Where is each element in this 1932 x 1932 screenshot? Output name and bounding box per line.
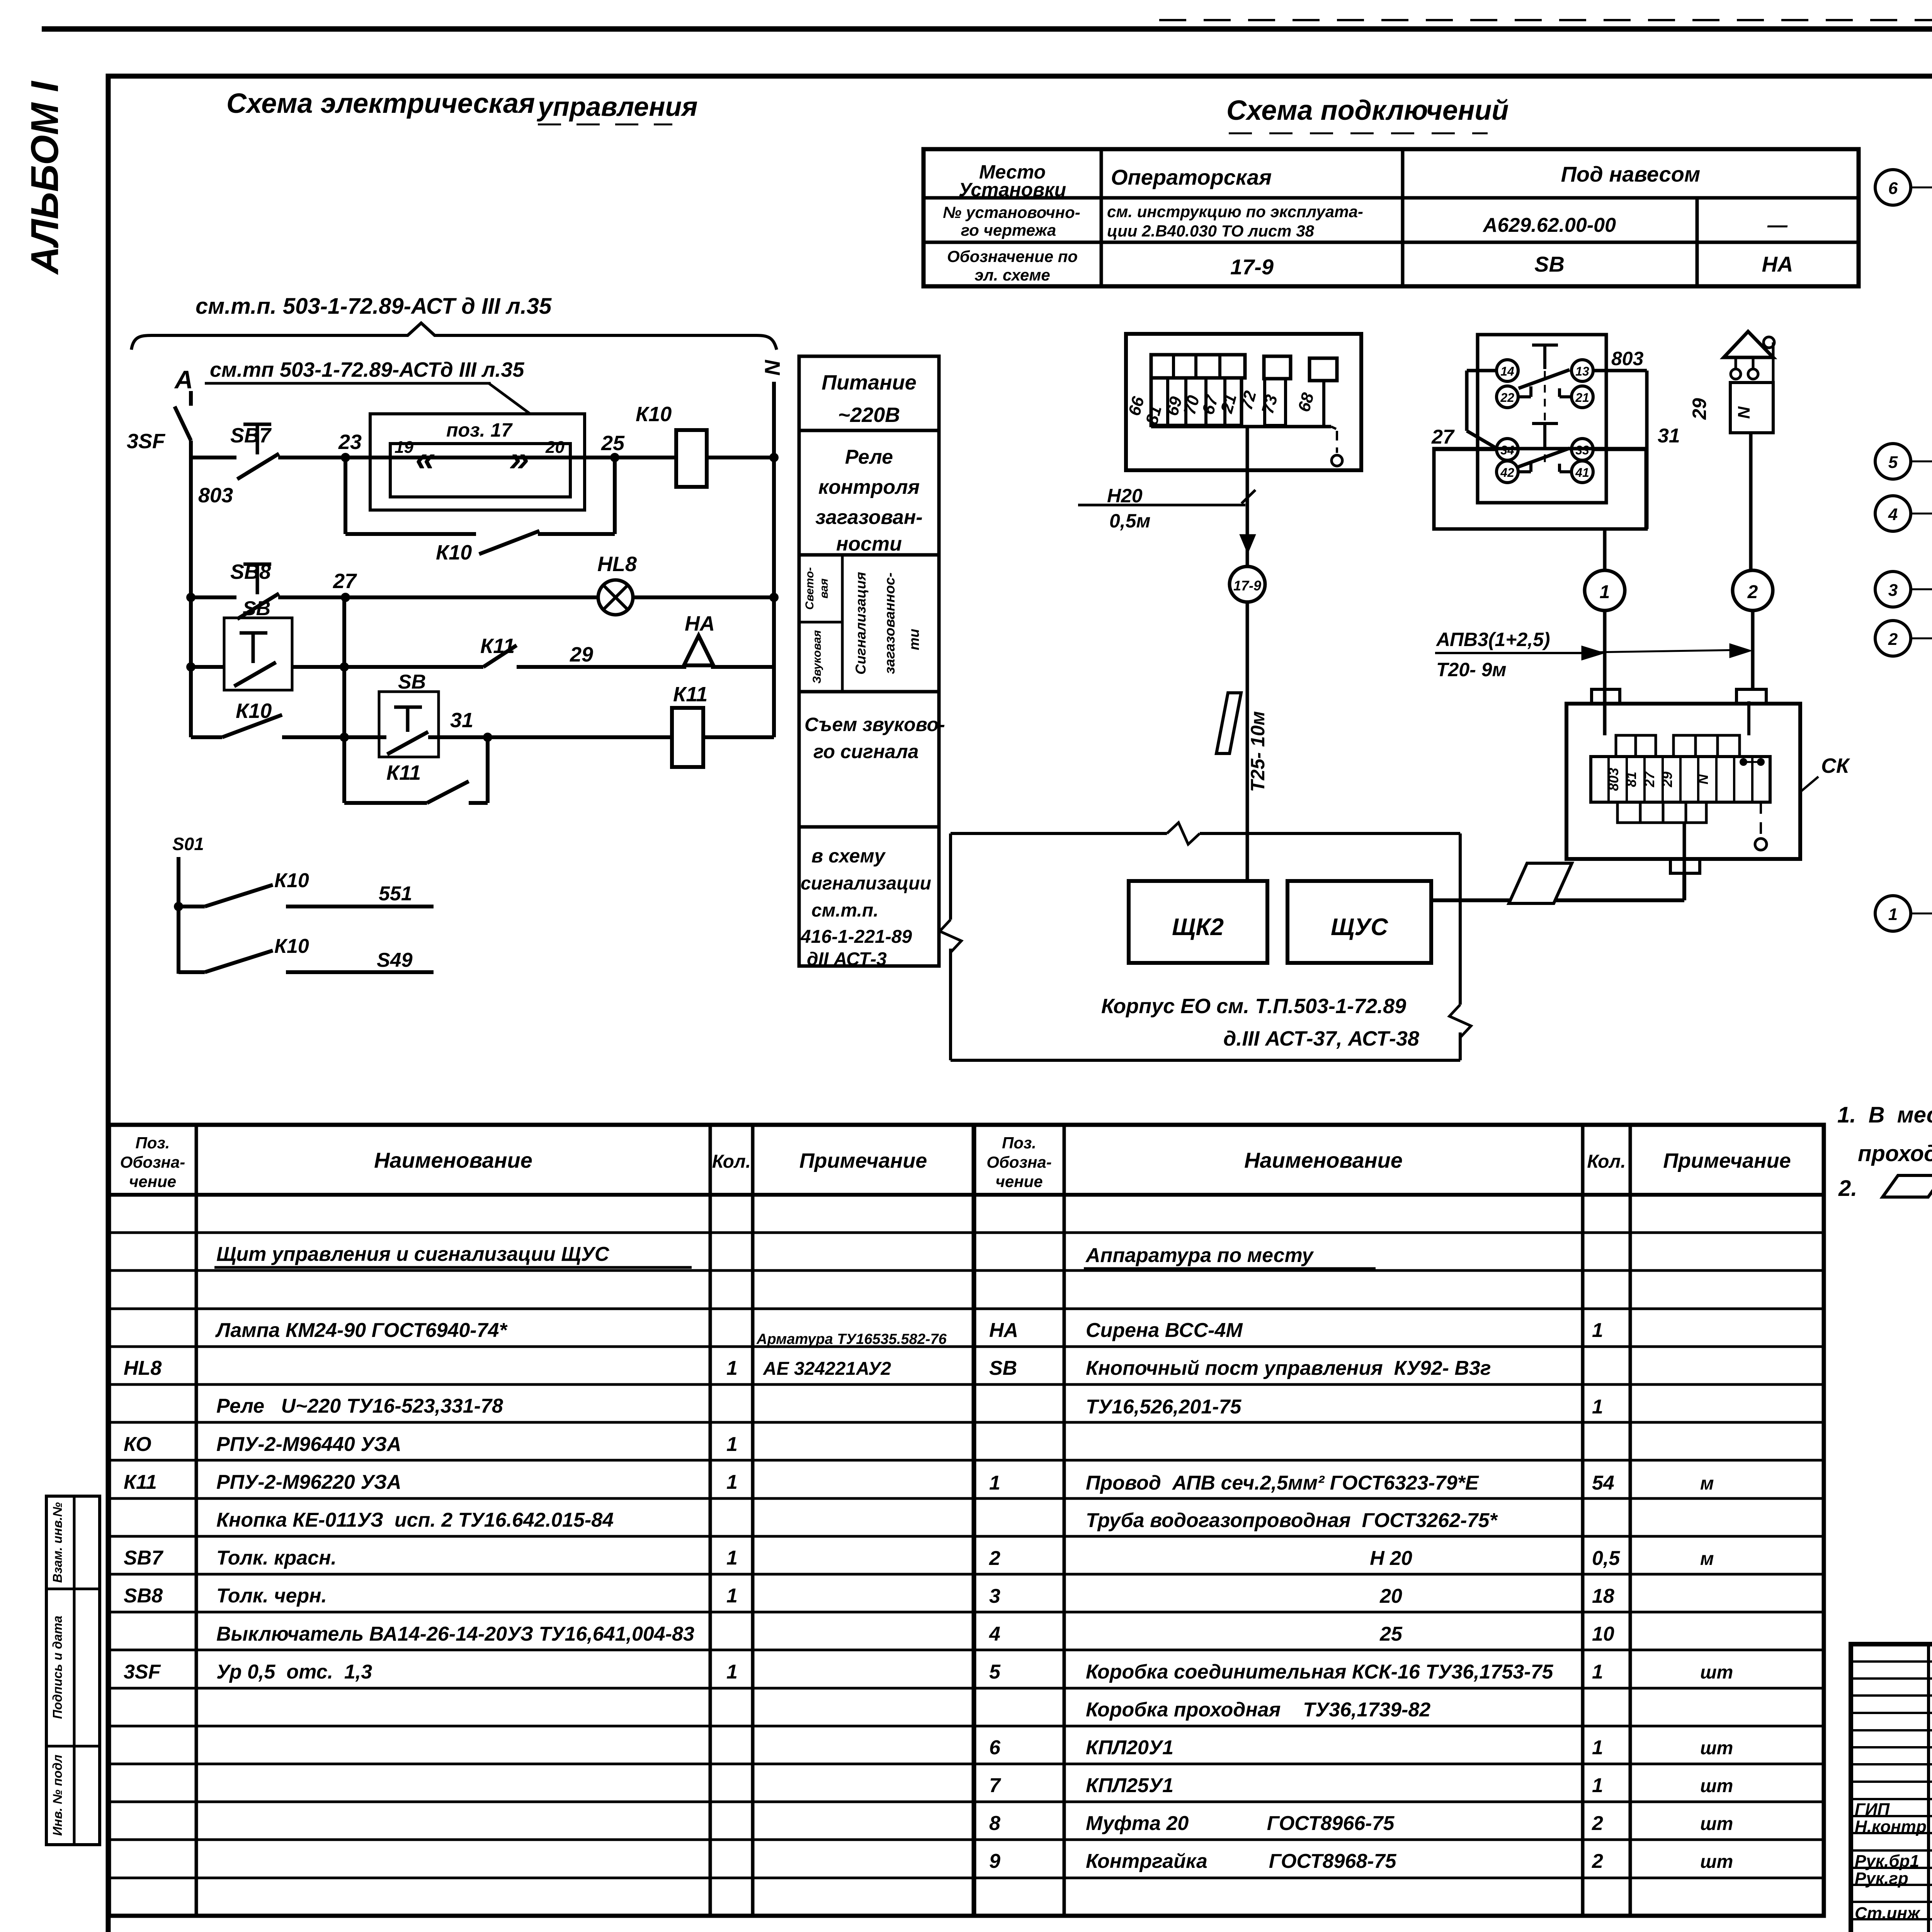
svg-text:2: 2: [1592, 1850, 1603, 1872]
svg-text:1: 1: [726, 1471, 738, 1493]
svg-text:20: 20: [1379, 1585, 1402, 1607]
svg-text:Кол.: Кол.: [1587, 1151, 1626, 1172]
svg-text:2: 2: [1592, 1812, 1603, 1835]
svg-text:SB8: SB8: [124, 1585, 163, 1607]
svg-text:А629.62.00-00: А629.62.00-00: [1482, 214, 1616, 236]
svg-text:25: 25: [1379, 1623, 1403, 1645]
svg-text:Толк. красн.: Толк. красн.: [216, 1547, 337, 1569]
svg-text:S01: S01: [172, 834, 204, 854]
svg-text:АЛЬБОМ I: АЛЬБОМ I: [23, 80, 66, 275]
svg-text:загазованнос-: загазованнос-: [882, 573, 898, 674]
svg-text:1: 1: [1592, 1396, 1603, 1418]
svg-text:6: 6: [1888, 179, 1898, 198]
svg-text:Обозна-: Обозна-: [120, 1153, 185, 1171]
svg-text:SB: SB: [989, 1357, 1017, 1379]
svg-text:Съем звуково-: Съем звуково-: [804, 714, 945, 735]
svg-text:1: 1: [726, 1357, 738, 1379]
svg-text:сигнализации: сигнализации: [801, 873, 931, 894]
svg-text:3SF: 3SF: [127, 430, 166, 453]
svg-text:м: м: [1700, 1549, 1714, 1569]
svg-text:дII АСТ-3: дII АСТ-3: [807, 949, 887, 969]
svg-text:21: 21: [1575, 391, 1589, 405]
svg-text:К10: К10: [274, 935, 309, 957]
svg-text:Инв. № подл: Инв. № подл: [50, 1755, 65, 1836]
svg-text:КО: КО: [124, 1433, 151, 1456]
svg-text:N: N: [1735, 406, 1753, 419]
svg-text:416-1-221-89: 416-1-221-89: [800, 927, 912, 947]
svg-text:S49: S49: [377, 949, 413, 971]
svg-text:КПЛ20У1: КПЛ20У1: [1086, 1736, 1173, 1759]
svg-text:2: 2: [1747, 582, 1758, 602]
svg-text:го чертежа: го чертежа: [961, 221, 1056, 239]
svg-text:Примечание: Примечание: [1663, 1149, 1791, 1172]
svg-text:шт: шт: [1700, 1852, 1733, 1872]
svg-text:№ установочно-: № установочно-: [943, 203, 1080, 221]
svg-text:Установки: Установки: [959, 179, 1066, 201]
svg-text:19: 19: [395, 438, 413, 457]
svg-text:0,5м: 0,5м: [1109, 510, 1151, 532]
svg-text:29: 29: [570, 643, 593, 666]
svg-text:Ст.инж: Ст.инж: [1855, 1904, 1921, 1923]
svg-text:4: 4: [989, 1623, 1000, 1645]
svg-text:К10: К10: [274, 869, 309, 892]
svg-text:АЕ 324221АУ2: АЕ 324221АУ2: [763, 1359, 891, 1379]
svg-text:Выключатель ВА14-26-14-20УЗ ТУ: Выключатель ВА14-26-14-20УЗ ТУ16,641,004…: [216, 1623, 694, 1645]
svg-text:ции 2.В40.030 ТО лист 38: ции 2.В40.030 ТО лист 38: [1107, 222, 1315, 240]
svg-text:Аппаратура по месту: Аппаратура по месту: [1085, 1244, 1315, 1267]
svg-text:ГИП: ГИП: [1855, 1800, 1890, 1819]
svg-text:SB8: SB8: [230, 560, 271, 583]
svg-text:1: 1: [726, 1433, 738, 1456]
svg-text:Арматура ТУ16535.582-76: Арматура ТУ16535.582-76: [756, 1331, 947, 1347]
svg-text:Контргайка ГОСТ8968-: Контргайка ГОСТ8968-75: [1086, 1850, 1397, 1872]
svg-text:5: 5: [1888, 453, 1898, 472]
svg-text:СК: СК: [1821, 754, 1850, 777]
svg-text:10: 10: [1592, 1623, 1614, 1645]
svg-text:25: 25: [601, 432, 625, 455]
svg-text:Реле U~220 ТУ16-523,331-78: Реле U~220 ТУ16-523,331-78: [216, 1395, 503, 1417]
svg-text:А: А: [174, 365, 193, 394]
svg-text:ЩК2: ЩК2: [1172, 914, 1224, 940]
svg-text:шт: шт: [1700, 1662, 1733, 1683]
svg-text:ти: ти: [906, 629, 922, 650]
svg-text:АПВ3(1+2,5): АПВ3(1+2,5): [1435, 629, 1550, 650]
svg-text:27: 27: [1431, 426, 1455, 448]
svg-text:К11: К11: [480, 634, 515, 658]
svg-text:НА: НА: [685, 612, 715, 635]
svg-text:проходные коробки.: проходные коробки.: [1858, 1141, 1932, 1166]
svg-text:3: 3: [1888, 581, 1898, 600]
svg-text:27: 27: [333, 570, 357, 593]
svg-text:Т20- 9м: Т20- 9м: [1436, 659, 1507, 680]
svg-text:17-9: 17-9: [1230, 255, 1274, 279]
svg-text:Н.контр: Н.контр: [1855, 1817, 1927, 1836]
svg-text:в схему: в схему: [811, 845, 886, 867]
svg-text:Корпус ЕО см. Т.П.503-1-72.89: Корпус ЕО см. Т.П.503-1-72.89: [1101, 995, 1406, 1018]
svg-text:Схема электрическая: Схема электрическая: [226, 88, 535, 119]
svg-text:2: 2: [989, 1547, 1000, 1570]
svg-text:803: 803: [1611, 348, 1644, 369]
svg-text:8: 8: [989, 1812, 1000, 1835]
svg-text:эл. схеме: эл. схеме: [975, 266, 1050, 284]
svg-text:SB: SB: [398, 671, 426, 693]
svg-text:НА: НА: [989, 1319, 1018, 1342]
svg-text:81: 81: [1623, 772, 1639, 787]
svg-text:1: 1: [1592, 1661, 1603, 1683]
svg-text:Поз.: Поз.: [1002, 1134, 1036, 1152]
svg-text:Обозначение по: Обозначение по: [947, 247, 1078, 265]
svg-text:Кнопка КЕ-011УЗ исп. 2 ТУ16.6: Кнопка КЕ-011УЗ исп. 2 ТУ16.642.015-84: [216, 1509, 614, 1531]
svg-text:41: 41: [1575, 466, 1589, 480]
svg-text:803: 803: [1605, 768, 1621, 791]
svg-text:Наименование: Наименование: [1244, 1148, 1403, 1172]
svg-text:ЩУС: ЩУС: [1331, 914, 1388, 940]
svg-text:551: 551: [379, 883, 412, 905]
svg-text:~220В: ~220В: [838, 403, 900, 427]
svg-text:Коробка проходная ТУ36,1739: Коробка проходная ТУ36,1739-82: [1086, 1699, 1430, 1721]
svg-text:1: 1: [726, 1547, 738, 1569]
svg-text:вая: вая: [818, 578, 830, 599]
svg-text:К11: К11: [673, 683, 707, 706]
svg-text:22: 22: [1500, 391, 1514, 405]
svg-text:см.т.п.: см.т.п.: [811, 900, 879, 921]
svg-text:Сирена ВСС-4М: Сирена ВСС-4М: [1086, 1319, 1243, 1342]
svg-text:1: 1: [1888, 905, 1898, 924]
svg-text:1: 1: [1592, 1736, 1603, 1759]
svg-text:4: 4: [1888, 505, 1898, 524]
svg-text:Схема подключений: Схема подключений: [1226, 95, 1509, 126]
svg-text:33: 33: [1575, 443, 1589, 457]
svg-text:18: 18: [1592, 1585, 1614, 1607]
svg-text:К11: К11: [386, 761, 421, 784]
svg-text:1. В месте перехода трубы: 1. В месте перехода трубы Н20 на трубу 2…: [1837, 1102, 1932, 1128]
svg-text:Рук.бр1: Рук.бр1: [1855, 1852, 1919, 1871]
svg-text:20: 20: [545, 438, 565, 457]
svg-text:Реле: Реле: [845, 446, 893, 468]
svg-text:см. инструкцию по эксплуата-: см. инструкцию по эксплуата-: [1107, 202, 1363, 221]
svg-text:Т25- 10м: Т25- 10м: [1247, 711, 1269, 792]
svg-text:Н20: Н20: [1107, 485, 1143, 507]
svg-text:шт: шт: [1700, 1738, 1733, 1759]
svg-text:Примечание: Примечание: [799, 1149, 927, 1172]
svg-text:Кол.: Кол.: [712, 1151, 751, 1172]
svg-text:м: м: [1700, 1473, 1714, 1494]
svg-text:14: 14: [1500, 364, 1514, 378]
svg-text:—: —: [1767, 214, 1788, 236]
svg-text:см.тп 503-1-72.89-АСТд III л.3: см.тп 503-1-72.89-АСТд III л.35: [210, 358, 524, 381]
svg-text:НА: НА: [1762, 252, 1793, 276]
svg-text:31: 31: [1658, 425, 1680, 447]
svg-text:Подпись и дата: Подпись и дата: [50, 1616, 65, 1719]
svg-text:РПУ-2-М96220 УЗА: РПУ-2-М96220 УЗА: [216, 1471, 401, 1493]
svg-text:Операторская: Операторская: [1111, 165, 1272, 189]
svg-text:Коробка соединительная КСК-16: Коробка соединительная КСК-16 ТУ36,1753-…: [1086, 1661, 1553, 1683]
svg-text:SB: SB: [243, 597, 270, 620]
svg-text:поз. 17: поз. 17: [446, 419, 513, 441]
svg-text:Звуковая: Звуковая: [811, 630, 823, 684]
svg-text:контроля: контроля: [818, 476, 920, 498]
svg-text:Н 20: Н 20: [1370, 1547, 1412, 1570]
svg-text:загазован-: загазован-: [815, 506, 922, 529]
svg-text:»: »: [509, 439, 529, 478]
svg-text:6: 6: [989, 1736, 1001, 1759]
svg-text:0,5: 0,5: [1592, 1547, 1620, 1570]
svg-text:Провод АПВ сеч.2,5мм² ГОСТ632: Провод АПВ сеч.2,5мм² ГОСТ6323-79*Е: [1086, 1472, 1479, 1494]
svg-text:Ур 0,5 отс. 1,3: Ур 0,5 отс. 1,3: [216, 1661, 372, 1683]
svg-text:27: 27: [1641, 771, 1657, 787]
svg-text:42: 42: [1500, 466, 1514, 480]
svg-text:Труба водогазопроводная ГОСТ3: Труба водогазопроводная ГОСТ3262-75*: [1086, 1509, 1498, 1532]
svg-text:23: 23: [338, 430, 362, 454]
svg-text:управления: управления: [537, 92, 697, 122]
svg-text:1: 1: [1600, 582, 1610, 602]
svg-text:го сигнала: го сигнала: [813, 741, 918, 762]
svg-text:чение: чение: [129, 1172, 176, 1190]
svg-text:3SF: 3SF: [124, 1661, 161, 1683]
svg-text:шт: шт: [1700, 1776, 1733, 1796]
svg-text:Взам. инв.№: Взам. инв.№: [50, 1502, 65, 1583]
svg-text:2: 2: [1888, 630, 1898, 649]
svg-text:1: 1: [1592, 1774, 1603, 1797]
svg-text:Лампа КМ24-90 ГОСТ6940-74*: Лампа КМ24-90 ГОСТ6940-74*: [215, 1319, 508, 1342]
svg-text:Щит управления и сигнализации: Щит управления и сигнализации ЩУС: [216, 1243, 610, 1265]
svg-text:Обозна-: Обозна-: [986, 1153, 1051, 1171]
svg-text:1: 1: [726, 1585, 738, 1607]
svg-text:54: 54: [1592, 1472, 1614, 1494]
svg-text:1: 1: [989, 1472, 1000, 1494]
svg-text:КПЛ25У1: КПЛ25У1: [1086, 1774, 1173, 1797]
svg-text:3: 3: [989, 1585, 1000, 1607]
svg-text:1: 1: [1592, 1319, 1603, 1342]
svg-text:Наименование: Наименование: [374, 1148, 532, 1172]
svg-text:Свето-: Свето-: [803, 567, 816, 610]
svg-text:Под навесом: Под навесом: [1561, 162, 1701, 186]
svg-text:SB7: SB7: [230, 424, 272, 447]
svg-text:Толк. черн.: Толк. черн.: [216, 1585, 327, 1607]
svg-text:SB: SB: [1534, 252, 1565, 276]
svg-text:РПУ-2-М96440 УЗА: РПУ-2-М96440 УЗА: [216, 1433, 401, 1456]
svg-text:9: 9: [989, 1850, 1000, 1872]
svg-text:Сигнализация: Сигнализация: [853, 572, 869, 675]
svg-text:1: 1: [726, 1661, 738, 1683]
svg-text:чение: чение: [995, 1172, 1043, 1190]
svg-text:HL8: HL8: [124, 1357, 162, 1379]
svg-text:SB7: SB7: [124, 1547, 163, 1569]
svg-text:ТУ16,526,201-75: ТУ16,526,201-75: [1086, 1396, 1242, 1418]
svg-text:HL8: HL8: [597, 553, 637, 576]
svg-text:К10: К10: [436, 541, 472, 564]
svg-text:29: 29: [1659, 772, 1675, 787]
svg-text:ности: ности: [836, 533, 902, 555]
svg-text:Поз.: Поз.: [136, 1134, 170, 1152]
svg-text:13: 13: [1575, 364, 1589, 378]
svg-text:N: N: [760, 359, 784, 376]
svg-text:«: «: [415, 439, 435, 478]
svg-text:Рук.гр: Рук.гр: [1855, 1869, 1908, 1888]
svg-text:К10: К10: [236, 699, 272, 723]
svg-text:Муфта 20 ГОСТ8966: Муфта 20 ГОСТ8966-75: [1086, 1812, 1395, 1835]
svg-text:N: N: [1695, 774, 1711, 784]
svg-text:2.: 2.: [1838, 1176, 1857, 1201]
svg-text:см.т.п. 503-1-72.89-АСТ д III: см.т.п. 503-1-72.89-АСТ д III л.35: [196, 294, 552, 319]
svg-text:7: 7: [989, 1774, 1001, 1797]
svg-text:17-9: 17-9: [1233, 578, 1261, 594]
svg-text:34: 34: [1500, 443, 1514, 457]
svg-text:К11: К11: [124, 1471, 157, 1493]
svg-text:29: 29: [1689, 398, 1710, 420]
svg-text:К10: К10: [636, 403, 672, 426]
svg-text:шт: шт: [1700, 1814, 1733, 1834]
svg-text:803: 803: [198, 484, 233, 507]
svg-text:Кнопочный пост управления КУ9: Кнопочный пост управления КУ92- В3г: [1086, 1357, 1491, 1379]
svg-text:31: 31: [450, 709, 473, 732]
svg-text:д.III АСТ-37, АСТ-38: д.III АСТ-37, АСТ-38: [1223, 1027, 1419, 1050]
svg-text:5: 5: [989, 1661, 1001, 1683]
svg-text:Питание: Питание: [821, 371, 917, 394]
